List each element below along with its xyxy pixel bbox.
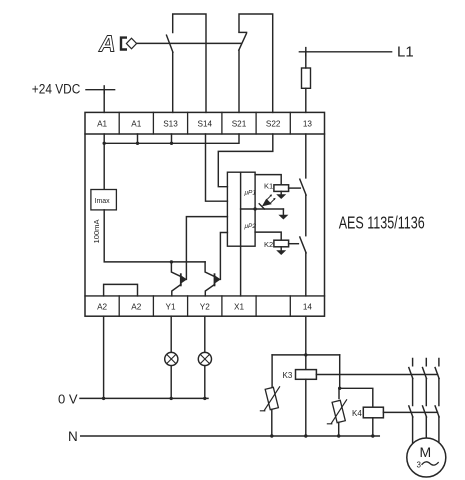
relay coil K1 — [274, 185, 289, 192]
ground LED — [282, 209, 284, 215]
wire 13-14 mid — [305, 195, 307, 236]
wire K4 mech link — [383, 411, 437, 413]
wire L1 to fuse — [305, 52, 307, 68]
varistor RV1 — [271, 355, 273, 388]
ground K1 — [280, 191, 282, 194]
svg-text:0 V: 0 V — [58, 392, 78, 407]
svg-text:K1: K1 — [264, 181, 273, 190]
contact K2 blade — [300, 237, 306, 253]
relay coil K4 — [363, 407, 383, 418]
LED D1 — [255, 208, 283, 210]
wire Imax to base rail — [104, 210, 205, 262]
svg-text:AES 1135/1136: AES 1135/1136 — [339, 213, 425, 233]
terminal separators bottom — [119, 296, 290, 316]
node branch junction — [272, 354, 340, 356]
transistor Q1 — [171, 262, 180, 277]
contact K4c blade — [435, 406, 439, 417]
lamp H1 — [170, 316, 172, 352]
contact K4a blade — [409, 406, 413, 417]
contact K1 blade — [300, 179, 306, 195]
wire K3 mech link — [316, 374, 437, 376]
svg-text:A1: A1 — [131, 119, 141, 128]
wire S22 staircase — [218, 134, 272, 187]
wire A2 bridge — [104, 284, 138, 296]
fuse F1 — [302, 68, 311, 88]
wire T2 base feed — [220, 233, 227, 280]
wire phase L1a — [412, 359, 414, 444]
wire K4 to N — [372, 418, 374, 436]
ground K2 — [280, 247, 282, 250]
svg-text:S22: S22 — [266, 119, 281, 128]
svg-text:A2: A2 — [131, 302, 141, 311]
wire K1 coil feed — [255, 175, 281, 185]
svg-text:X1: X1 — [234, 302, 244, 311]
node rail junction dots — [103, 142, 174, 145]
wire bridge S13-S14 — [173, 14, 206, 112]
svg-text:A: A — [98, 31, 116, 57]
svg-text:L1: L1 — [397, 44, 414, 61]
svg-text:K3: K3 — [283, 371, 293, 380]
contact ES1 blade — [167, 35, 173, 52]
node L1 — [299, 51, 391, 53]
terminal row top line — [85, 133, 325, 135]
svg-text:A2: A2 — [97, 302, 107, 311]
svg-text:K2: K2 — [264, 240, 273, 249]
wire bridge S21-S22 — [239, 14, 273, 112]
svg-text:Y2: Y2 — [200, 302, 210, 311]
varistor RV2 — [338, 388, 340, 398]
lamp H2 — [204, 316, 206, 352]
wire phase L2a — [425, 359, 427, 439]
wire +24V to A1 — [103, 90, 105, 113]
svg-text:N: N — [68, 429, 78, 444]
node base rail dot — [170, 260, 173, 263]
wire S14 staircase — [206, 134, 228, 201]
wire 14 drop — [305, 316, 307, 369]
wire S13 drop — [172, 52, 174, 112]
contact K3a blade — [409, 368, 413, 379]
wire K2 coil feed — [255, 232, 281, 240]
module AES outline — [85, 112, 325, 316]
wire A2 to 0V — [103, 316, 105, 398]
svg-text:Imax: Imax — [95, 198, 111, 205]
svg-text:S13: S13 — [163, 119, 178, 128]
wire K4 branch — [340, 355, 373, 407]
wire K1 mech link — [289, 187, 301, 189]
wire 13 drop — [305, 134, 307, 178]
svg-text:S14: S14 — [198, 119, 213, 128]
contact K4b blade — [423, 406, 427, 417]
svg-text:A1: A1 — [97, 119, 107, 128]
contact K3c blade — [435, 368, 439, 379]
actuator diamond — [126, 38, 136, 49]
relay coil K3 — [296, 370, 317, 380]
svg-text:14: 14 — [303, 302, 313, 311]
wire K2 mech link — [289, 243, 299, 245]
svg-text:Y1: Y1 — [165, 302, 175, 311]
svg-text:M: M — [420, 444, 432, 460]
actuator bracket — [121, 38, 126, 50]
svg-text:μP1: μP1 — [244, 190, 257, 197]
op-amp U1 microprocessor block — [227, 172, 255, 246]
wire K3 to N — [305, 379, 307, 436]
svg-text:S21: S21 — [232, 119, 247, 128]
svg-text:K4: K4 — [352, 409, 362, 418]
svg-text:+24 VDC: +24 VDC — [32, 82, 81, 97]
contact ES2 hook — [239, 31, 247, 33]
svg-text:13: 13 — [303, 119, 313, 128]
wire phase L3a — [438, 359, 440, 443]
wire internal +24V rail — [104, 134, 239, 143]
svg-text:100mA: 100mA — [92, 219, 101, 244]
relay coil K2 — [274, 240, 289, 247]
wire to 14 — [305, 253, 307, 296]
wire S21 drop — [238, 50, 240, 112]
wire A1 to Imax — [103, 143, 105, 189]
svg-text:3: 3 — [417, 461, 422, 470]
motor M1 — [407, 438, 446, 477]
current limiter Imax box — [91, 190, 117, 210]
wire mechanical linkage — [137, 42, 241, 44]
terminal row bottom line — [85, 295, 325, 297]
contact K3b blade — [423, 368, 427, 379]
terminal separators top — [119, 112, 290, 134]
wire T1 base feed — [186, 217, 227, 280]
svg-text:μP2: μP2 — [244, 223, 257, 230]
wire fuse to 13 — [305, 88, 307, 112]
transistor Q2 — [205, 262, 214, 277]
wire X1 drop — [240, 246, 242, 296]
contact ES2 blade — [239, 34, 247, 51]
